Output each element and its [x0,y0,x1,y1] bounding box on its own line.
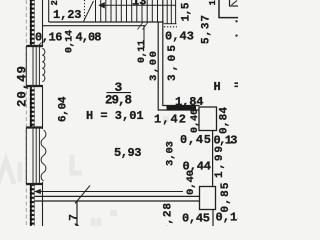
svg-text:29,8: 29,8 [105,93,132,107]
svg-text:20,49: 20,49 [16,66,30,107]
partition below bottom wall [76,201,78,226]
svg-text:3,00: 3,00 [148,51,160,81]
window W1 sill cap top [26,45,42,47]
partition line below box1 [212,131,214,187]
svg-text:=: = [234,79,238,93]
svg-text:1,99: 1,99 [214,146,226,178]
svg-text:0,13: 0,13 [214,134,238,148]
stair direction arrow line [100,4,176,6]
left outer wall face line [25,0,27,226]
wall black fill segment [167,106,197,111]
svg-text:5,37: 5,37 [201,15,213,44]
window W2 wavy line [41,130,46,181]
top-right inner plate [230,0,242,6]
dim line 5,93 [35,191,183,193]
top-right box corner [219,0,238,18]
door swing diagonal [75,186,90,204]
window W1 sill cap bottom [26,85,42,87]
window W1 insulation scallops [42,49,45,82]
svg-text:0,40: 0,40 [185,170,197,195]
stair arrow head [98,2,105,8]
svg-text:0,16: 0,16 [35,31,63,45]
svg-text:0,85: 0,85 [220,182,232,212]
svg-text:5,93: 5,93 [114,146,142,160]
svg-text:6,04: 6,04 [57,96,69,122]
svg-text:0,46: 0,46 [190,109,201,133]
window W2 glazing lines [26,128,39,185]
svg-text:13: 13 [132,0,146,9]
svg-text:0,28: 0,28 [163,203,175,226]
box1 shaft [199,107,217,131]
box2 shaft [200,187,216,210]
room3 right wall outer line [163,0,200,106]
edge dots [235,20,237,22]
svg-text:2: 2 [50,0,60,5]
svg-text:1,5: 1,5 [181,2,193,21]
svg-text:Н: Н [214,80,221,94]
landing left partition [48,0,50,22]
pier hatch marks [138,22,149,30]
left wall inner line segments [42,0,44,47]
svg-text:1,23: 1,23 [53,8,82,22]
plate diagonal [232,1,238,6]
svg-text:Н = 3,01: Н = 3,01 [86,109,144,123]
corner hatch at window1 top [38,43,43,48]
svg-text:1,7: 1,7 [69,214,81,226]
stair treads main flight [96,0,158,22]
room1 top wall upper line [49,21,164,23]
left wall masonry bead band upper [30,0,35,46]
bottom wall lower line [35,200,200,202]
svg-text:0,45: 0,45 [182,211,210,225]
svg-text:0,14: 0,14 [65,30,76,53]
stair treads right section [167,0,175,24]
svg-text:0,11: 0,11 [137,40,148,63]
svg-text:4,08: 4,08 [76,31,102,45]
flight diagonal [84,1,94,22]
room3 underline [107,92,132,94]
dotted landing boundary [84,0,86,19]
svg-text:1,84: 1,84 [175,95,204,109]
door opening jamb line [143,26,145,48]
partition line below box2 [212,210,214,227]
svg-text:1: 1 [208,0,218,6]
room1 top wall lower line [43,25,146,27]
dotted opening line under right treads [164,26,177,28]
right treads base line [164,23,177,25]
left wall masonry bead band middle [30,87,35,129]
svg-text:0,13: 0,13 [216,211,239,225]
dim arrow head [34,189,41,194]
svg-text:0,84: 0,84 [219,107,231,134]
bottom wall upper line [35,195,200,197]
left wall masonry bead band lower [30,185,35,227]
svg-text:0,45: 0,45 [180,133,211,147]
window W1 glazing lines [26,46,39,86]
svg-text:3,03: 3,03 [164,141,176,166]
svg-text:1,42: 1,42 [154,113,186,127]
window W2 sill cap top [26,126,42,128]
room3 right wall inner line [158,22,199,110]
watermark faint letters [0,119,169,226]
svg-text:0,43: 0,43 [165,30,194,44]
window W2 sill cap bottom [26,183,42,185]
